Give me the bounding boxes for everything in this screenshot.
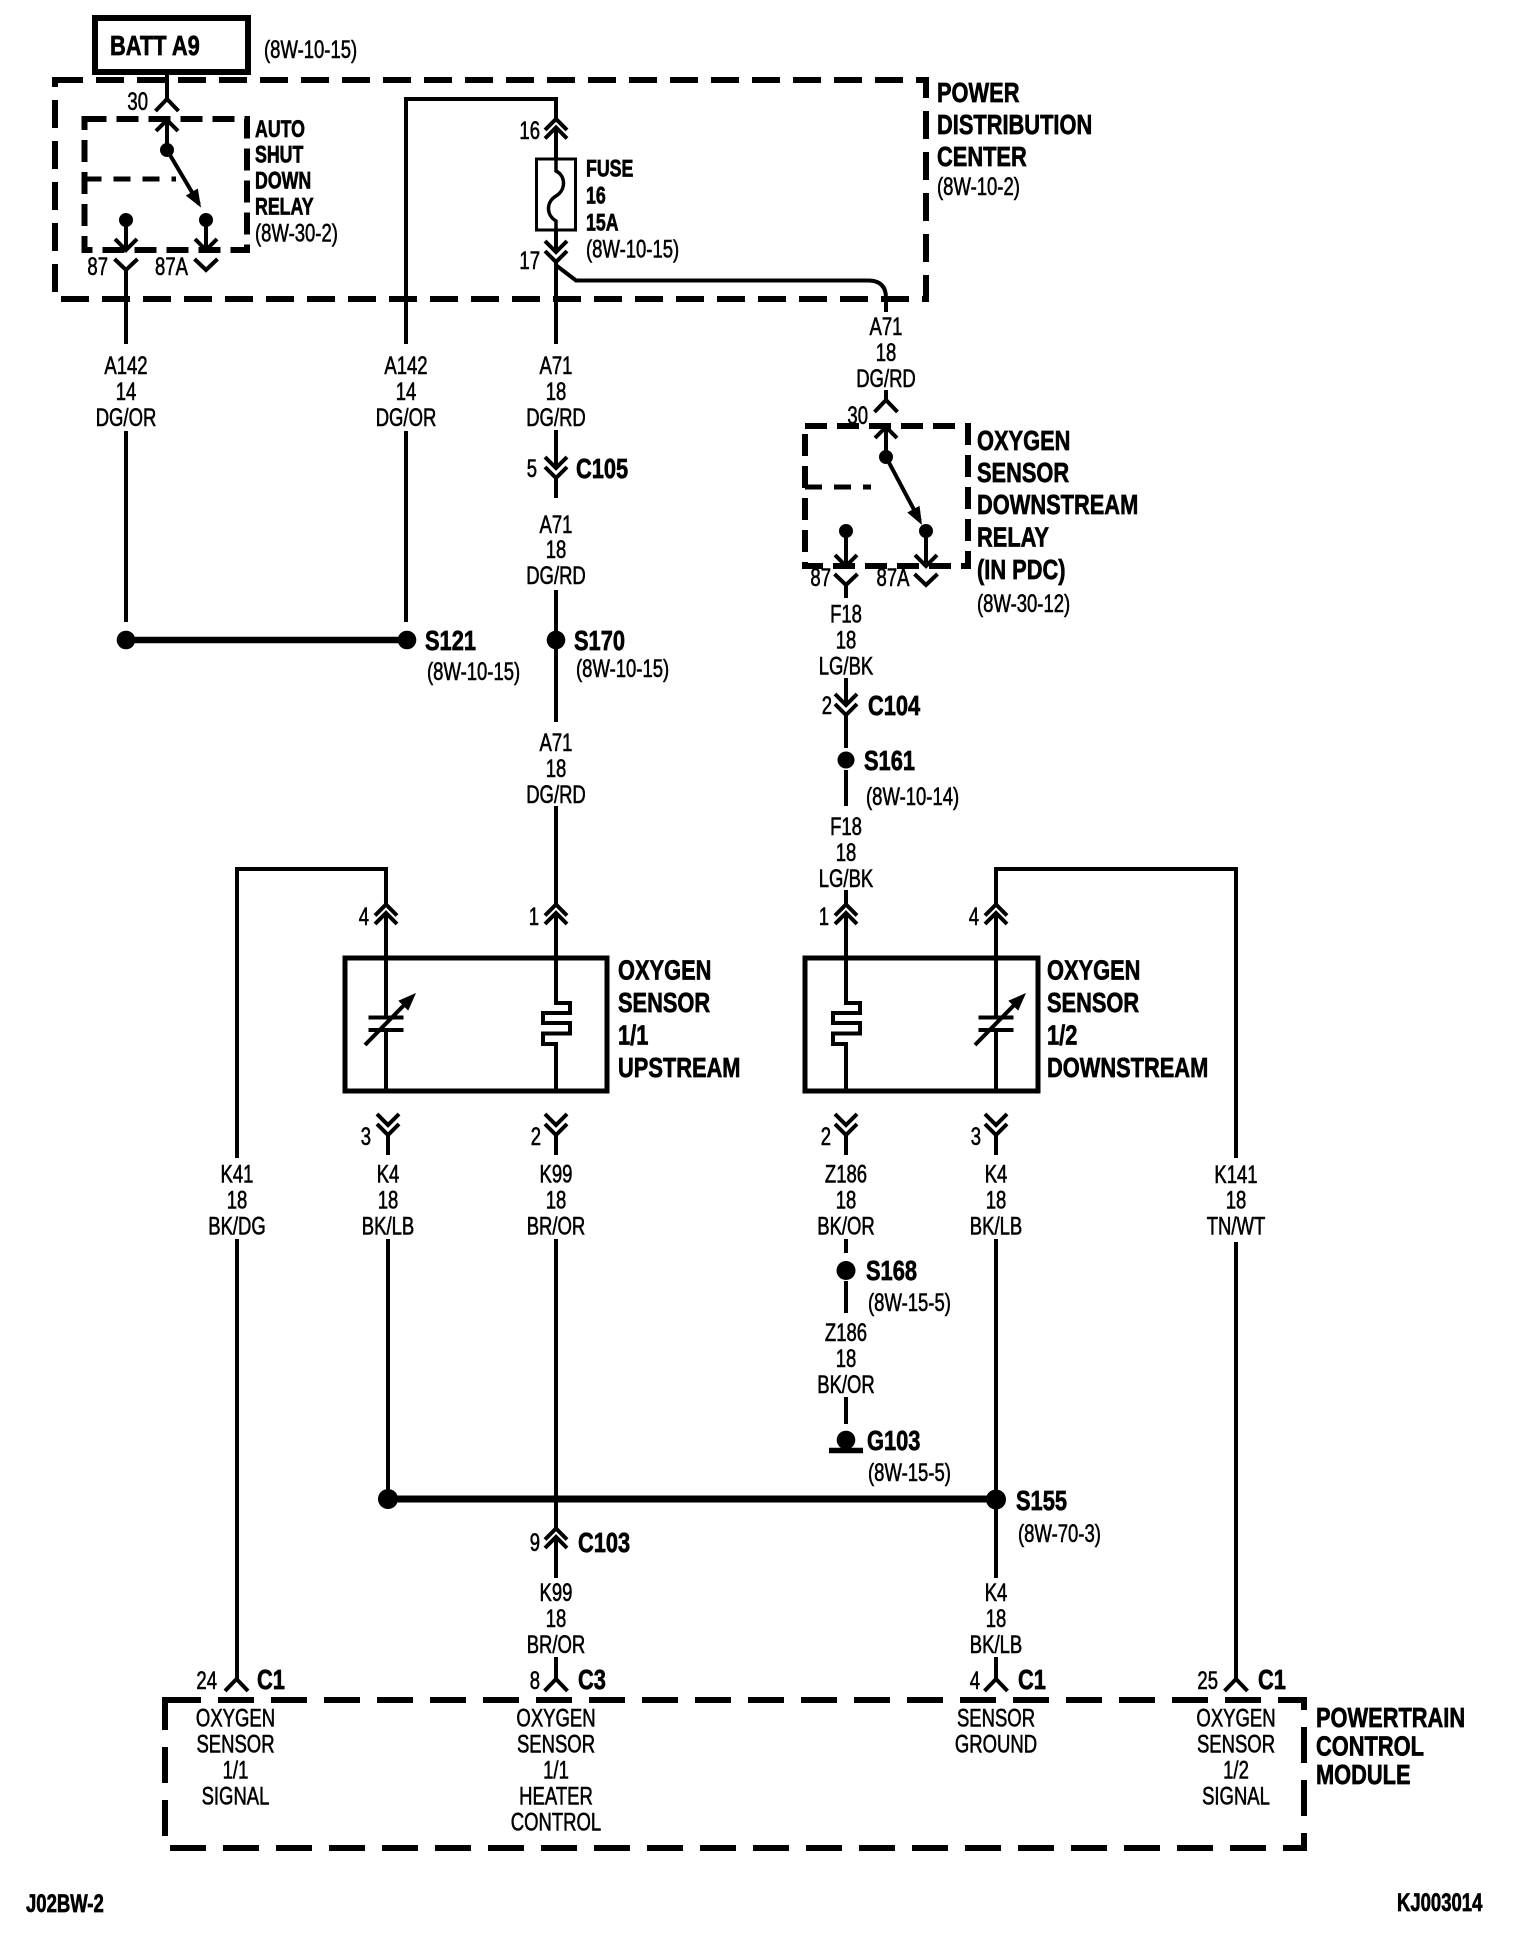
wire down to PCM pin 4 (994, 1657, 998, 1679)
svg-text:CENTER: CENTER (937, 141, 1027, 172)
wire label K4 18 BK/LB sensor 1/1 ground (362, 1160, 414, 1240)
PCM pin 8 female connector C3 (530, 1664, 606, 1695)
wire down to sensor 1/2 pin 1 (844, 890, 848, 904)
svg-text:OXYGEN: OXYGEN (516, 1704, 595, 1732)
svg-text:16: 16 (586, 183, 606, 209)
PCM pin 24 female connector C1 (196, 1664, 285, 1695)
wire column 2 down to splice S121 (404, 431, 408, 622)
svg-text:24: 24 (196, 1666, 217, 1694)
svg-text:C1: C1 (257, 1664, 285, 1695)
label OXYGEN SENSOR 1/1 HEATER CONTROL (511, 1704, 601, 1836)
svg-text:DOWNSTREAM: DOWNSTREAM (977, 489, 1138, 520)
label OXYGEN SENSOR 1/2 DOWNSTREAM (1047, 955, 1208, 1084)
svg-text:30: 30 (127, 87, 148, 115)
svg-text:BK/OR: BK/OR (817, 1212, 875, 1240)
svg-text:18: 18 (227, 1186, 248, 1214)
ground G103 (829, 1425, 951, 1486)
svg-text:BK/LB: BK/LB (970, 1212, 1022, 1240)
svg-text:OXYGEN: OXYGEN (1196, 1704, 1275, 1732)
wire label K4 18 BK/LB below S155 (970, 1578, 1022, 1658)
svg-text:C104: C104 (868, 690, 920, 721)
power distribution center dashed box (55, 80, 926, 299)
svg-text:BK/OR: BK/OR (817, 1370, 875, 1398)
ASD relay contact 87 terminal arrow (115, 213, 137, 250)
splice S168 (837, 1255, 951, 1316)
wire fuse to pin 17 connector (554, 230, 558, 252)
svg-text:FUSE: FUSE (586, 156, 633, 182)
svg-text:(8W-10-15): (8W-10-15) (427, 657, 520, 685)
sensor 1/1 pin 4 connector (359, 902, 397, 934)
svg-text:18: 18 (546, 535, 567, 563)
wire down to PCM pin 8 (554, 1657, 558, 1679)
wire pin 17 down through PDC to label (554, 282, 558, 344)
svg-text:K99: K99 (540, 1160, 573, 1188)
label OXYGEN SENSOR 1/2 SIGNAL (1196, 1704, 1275, 1810)
svg-text:BR/OR: BR/OR (527, 1630, 586, 1658)
svg-text:OXYGEN: OXYGEN (618, 955, 711, 986)
svg-text:4: 4 (359, 902, 369, 930)
wire label Z186 18 BK/OR (817, 1160, 875, 1240)
svg-text:S161: S161 (864, 745, 915, 776)
svg-text:A71: A71 (540, 728, 573, 756)
wire 1/2 signal column down to PCM pin 25 (1234, 1242, 1238, 1679)
svg-text:OXYGEN: OXYGEN (196, 1704, 275, 1732)
label OXYGEN SENSOR 1/1 UPSTREAM (618, 955, 740, 1084)
wire down to O2 relay pin 30 (884, 390, 888, 400)
svg-text:8: 8 (530, 1666, 540, 1694)
wire stub below S161 (844, 770, 848, 806)
sensor 1/2 pin 1 connector (819, 902, 857, 934)
connector C105 cavity 5 (527, 453, 629, 498)
svg-text:SIGNAL: SIGNAL (202, 1782, 270, 1810)
wire down to splice line S155 left end (386, 1239, 390, 1490)
svg-text:DISTRIBUTION: DISTRIBUTION (937, 109, 1092, 140)
svg-text:(8W-10-15): (8W-10-15) (586, 235, 679, 263)
ASD relay internal dashed line (85, 177, 177, 182)
svg-text:18: 18 (546, 377, 567, 405)
wire label K41 18 BK/DG (208, 1160, 266, 1240)
wire BATT A9 to ASD relay pin 30 (165, 72, 169, 99)
oxygen sensor 1/2 downstream box (805, 958, 1038, 1091)
svg-text:BK/LB: BK/LB (970, 1630, 1022, 1658)
svg-text:K4: K4 (377, 1160, 400, 1188)
wire stub below S168 (844, 1281, 848, 1313)
svg-text:BK/LB: BK/LB (362, 1212, 414, 1240)
svg-text:CONTROL: CONTROL (1316, 1731, 1424, 1762)
powertrain control module dashed box (165, 1700, 1304, 1848)
svg-text:SENSOR: SENSOR (1197, 1730, 1275, 1758)
svg-text:(8W-10-2): (8W-10-2) (937, 172, 1020, 200)
svg-text:(8W-70-3): (8W-70-3) (1018, 1519, 1101, 1547)
splice S121 (117, 625, 520, 685)
label POWERTRAIN CONTROL MODULE (1316, 1702, 1465, 1790)
wire C104 to splice S161 (844, 714, 848, 748)
svg-text:C1: C1 (1258, 1664, 1286, 1695)
svg-text:K141: K141 (1214, 1160, 1257, 1188)
ASD relay pin 87 female connector (87, 252, 137, 283)
svg-text:16: 16 (519, 116, 540, 144)
svg-text:BK/DG: BK/DG (208, 1212, 266, 1240)
label AUTO SHUT DOWN RELAY (255, 117, 338, 248)
svg-text:LG/BK: LG/BK (819, 864, 874, 892)
sensor 1/1 pin 1 connector (529, 902, 567, 934)
svg-text:F18: F18 (830, 600, 862, 628)
svg-text:DG/RD: DG/RD (526, 561, 586, 589)
wire label A71 18 DG/RD relay feed (856, 312, 916, 392)
label FUSE 16 15A (586, 156, 679, 263)
svg-text:25: 25 (1197, 1666, 1218, 1694)
svg-text:Z186: Z186 (825, 1318, 867, 1346)
svg-text:LG/BK: LG/BK (819, 652, 874, 680)
svg-text:AUTO: AUTO (255, 117, 305, 143)
wire pin 4 connector into sensor box (384, 934, 388, 958)
svg-text:A71: A71 (870, 312, 903, 340)
svg-text:K99: K99 (540, 1578, 573, 1606)
sensor 1/1 pin 3 connector (361, 1114, 399, 1155)
wire label A71 18 DG/RD below C105 (526, 477, 586, 590)
svg-text:C3: C3 (578, 1664, 606, 1695)
label POWER DISTRIBUTION CENTER (937, 77, 1092, 200)
svg-text:POWERTRAIN: POWERTRAIN (1316, 1702, 1465, 1733)
svg-text:SHUT: SHUT (255, 142, 303, 168)
ASD relay pin 87A female connector (155, 252, 217, 280)
sensor 1/2 pin 2 connector (821, 1114, 857, 1155)
svg-text:87A: 87A (155, 252, 188, 280)
svg-text:BR/OR: BR/OR (527, 1212, 586, 1240)
svg-text:(IN PDC): (IN PDC) (977, 554, 1066, 585)
label OXYGEN SENSOR DOWNSTREAM RELAY (IN PDC) (977, 425, 1138, 617)
svg-text:4: 4 (969, 902, 979, 930)
svg-text:SIGNAL: SIGNAL (1202, 1782, 1270, 1810)
sensor 1/2 pin 4 connector (969, 902, 1007, 934)
sensor 1/2 variable sense element (975, 958, 1026, 1091)
svg-text:4: 4 (970, 1666, 980, 1694)
svg-text:DG/RD: DG/RD (856, 364, 916, 392)
sensor 1/1 heater element (543, 958, 570, 1091)
wire stub to ground G103 (844, 1397, 848, 1424)
wire S155 down to label (994, 1509, 998, 1578)
svg-text:C103: C103 (578, 1527, 630, 1558)
svg-text:DG/OR: DG/OR (96, 403, 157, 431)
svg-text:SENSOR: SENSOR (957, 1704, 1035, 1732)
label OXYGEN SENSOR 1/1 SIGNAL (196, 1704, 275, 1810)
wire S170 down (554, 649, 558, 722)
footer diagram number J02BW-2 (26, 1889, 104, 1917)
svg-text:2: 2 (822, 691, 832, 719)
oxygen sensor downstream relay dashed box (805, 426, 968, 566)
svg-text:J02BW-2: J02BW-2 (26, 1889, 104, 1917)
svg-text:18: 18 (546, 1604, 567, 1632)
PCM pin 4 female connector C1 (970, 1664, 1046, 1695)
svg-text:A142: A142 (384, 351, 427, 379)
splice S170 (547, 625, 669, 682)
svg-text:(8W-10-15): (8W-10-15) (264, 35, 357, 63)
O2 relay internal dashed line (805, 485, 871, 490)
svg-text:C1: C1 (1018, 1664, 1046, 1695)
wire label K99 18 BR/OR below C103 (527, 1558, 586, 1659)
PCM pin 25 female connector C1 (1197, 1664, 1286, 1695)
svg-text:1/1: 1/1 (223, 1756, 249, 1784)
svg-text:(8W-10-14): (8W-10-14) (866, 782, 959, 810)
svg-text:18: 18 (836, 838, 857, 866)
wire label F18 18 LG/BK (819, 600, 874, 680)
sensor 1/2 heater element (833, 958, 860, 1091)
svg-text:87: 87 (810, 563, 831, 591)
svg-text:(8W-15-5): (8W-15-5) (868, 1458, 951, 1486)
wire label A71 18 DG/RD fuse column (526, 351, 586, 431)
svg-text:15A: 15A (586, 210, 619, 236)
svg-text:K4: K4 (985, 1578, 1008, 1606)
svg-text:18: 18 (836, 1344, 857, 1372)
svg-text:S168: S168 (866, 1255, 917, 1286)
svg-text:UPSTREAM: UPSTREAM (618, 1052, 740, 1083)
svg-text:1/2: 1/2 (1047, 1020, 1077, 1051)
svg-text:9: 9 (530, 1528, 540, 1556)
O2 relay contact 87A terminal arrow (915, 524, 937, 566)
svg-text:SENSOR: SENSOR (1047, 987, 1139, 1018)
svg-text:18: 18 (876, 338, 897, 366)
connector C103 cavity 9 (530, 1527, 631, 1558)
wire sensor 1/1 pin 4 up and left to signal column (237, 869, 386, 1158)
svg-text:DOWNSTREAM: DOWNSTREAM (1047, 1052, 1208, 1083)
svg-text:(8W-10-15): (8W-10-15) (576, 654, 669, 682)
svg-text:DG/RD: DG/RD (526, 780, 586, 808)
ASD relay contact 87A terminal arrow (195, 213, 217, 250)
branch wire pin 17 to oxygen sensor downstream relay feed (557, 266, 886, 312)
wire pin 4 connector into sensor 1/2 box (994, 934, 998, 958)
svg-text:18: 18 (546, 754, 567, 782)
svg-text:A71: A71 (540, 351, 573, 379)
svg-text:POWER: POWER (937, 77, 1019, 108)
svg-text:HEATER: HEATER (519, 1782, 593, 1810)
fuse 16 15A (537, 159, 576, 230)
svg-text:18: 18 (1226, 1186, 1247, 1214)
svg-text:3: 3 (971, 1122, 981, 1150)
svg-text:TN/WT: TN/WT (1207, 1212, 1266, 1240)
wire label K99 18 BR/OR (527, 1160, 586, 1240)
ASD relay pin 30 female connector (127, 87, 178, 115)
auto shut down relay dashed box (85, 119, 248, 250)
wire signal column down to PCM pin 24 (235, 1239, 239, 1679)
svg-text:S170: S170 (574, 625, 625, 656)
wire down to sensor 1/1 pin 1 (554, 806, 558, 904)
svg-text:1: 1 (819, 902, 829, 930)
svg-text:BATT A9: BATT A9 (110, 30, 200, 61)
wire label K4 18 BK/LB sensor ground column (970, 1160, 1022, 1240)
svg-text:DOWN: DOWN (255, 168, 311, 194)
svg-text:RELAY: RELAY (977, 522, 1049, 553)
ASD relay switch arm (167, 150, 201, 208)
svg-text:3: 3 (361, 1122, 371, 1150)
svg-text:S121: S121 (425, 625, 476, 656)
wire pin 1 connector into sensor box (554, 934, 558, 958)
wire down to splice S170 (554, 590, 558, 631)
O2 relay pin 30 female connector (847, 400, 897, 430)
footer drawing number KJ003014 (1397, 1888, 1483, 1916)
reference (8W-10-15) for BATT A9 (264, 35, 357, 63)
svg-text:K4: K4 (985, 1160, 1008, 1188)
svg-text:87: 87 (87, 252, 108, 280)
svg-text:Z186: Z186 (825, 1160, 867, 1188)
svg-text:17: 17 (519, 246, 540, 274)
wire 87 column down to splice S121 (124, 431, 128, 622)
svg-text:OXYGEN: OXYGEN (977, 425, 1070, 456)
wire label F18 18 LG/BK below S161 (819, 812, 874, 892)
svg-text:SENSOR: SENSOR (618, 987, 710, 1018)
wire label Z186 18 BK/OR below S168 (817, 1318, 875, 1398)
O2 relay contact 87 terminal arrow (835, 524, 857, 566)
svg-text:DG/RD: DG/RD (526, 403, 586, 431)
svg-text:2: 2 (531, 1122, 541, 1150)
O2 relay pin 87A female connector (877, 563, 938, 591)
svg-text:1/1: 1/1 (618, 1020, 648, 1051)
svg-text:(8W-15-5): (8W-15-5) (868, 1288, 951, 1316)
svg-text:OXYGEN: OXYGEN (1047, 955, 1140, 986)
svg-text:SENSOR: SENSOR (977, 457, 1069, 488)
svg-text:DG/OR: DG/OR (376, 403, 437, 431)
fuse cavity pin 16 connector (519, 116, 567, 148)
sensor 1/1 pin 2 connector (531, 1114, 567, 1155)
wire stub to splice S168 (844, 1239, 848, 1253)
svg-text:S155: S155 (1016, 1485, 1067, 1516)
O2 relay pin 30 terminal arrow (875, 427, 897, 464)
wire down to splice S155 (994, 1239, 998, 1490)
svg-text:G103: G103 (867, 1425, 920, 1456)
oxygen sensor 1/1 upstream box (345, 958, 607, 1091)
svg-text:C105: C105 (576, 453, 628, 484)
svg-text:RELAY: RELAY (255, 194, 314, 220)
splice S155 (378, 1485, 1101, 1547)
svg-text:A142: A142 (104, 351, 147, 379)
wire label A142 14 DG/OR column 2 (376, 351, 437, 431)
svg-text:SENSOR: SENSOR (517, 1730, 595, 1758)
sensor 1/2 pin 3 connector (971, 1114, 1007, 1155)
svg-text:(8W-30-12): (8W-30-12) (977, 589, 1070, 617)
svg-text:18: 18 (836, 1186, 857, 1214)
svg-text:18: 18 (986, 1186, 1007, 1214)
wire down to connector C104 (844, 678, 848, 705)
svg-text:18: 18 (836, 626, 857, 654)
wire down to connector C105 (554, 430, 558, 468)
svg-text:2: 2 (821, 1122, 831, 1150)
wire pin 1 connector into sensor 1/2 box (844, 934, 848, 958)
svg-text:KJ003014: KJ003014 (1397, 1888, 1483, 1916)
wire into fuse (554, 149, 558, 160)
svg-text:1/1: 1/1 (543, 1756, 569, 1784)
label SENSOR GROUND (955, 1704, 1037, 1758)
svg-text:18: 18 (378, 1186, 399, 1214)
svg-text:F18: F18 (830, 812, 862, 840)
svg-text:14: 14 (396, 377, 417, 405)
wire label A71 18 DG/RD above sensor (526, 728, 586, 808)
O2 relay pin 87 female connector (810, 563, 857, 598)
svg-text:MODULE: MODULE (1316, 1759, 1411, 1790)
svg-text:(8W-30-2): (8W-30-2) (255, 219, 338, 247)
svg-text:CONTROL: CONTROL (511, 1808, 601, 1836)
fuse cavity pin 17 connector (519, 241, 567, 282)
wire sensor 1/2 pin 4 up and right to signal column (996, 869, 1236, 1158)
svg-text:5: 5 (527, 454, 537, 482)
svg-text:SENSOR: SENSOR (196, 1730, 274, 1758)
connector C104 cavity 2 (822, 690, 921, 735)
svg-text:GROUND: GROUND (955, 1730, 1037, 1758)
svg-text:1/2: 1/2 (1223, 1756, 1249, 1784)
svg-text:K41: K41 (221, 1160, 254, 1188)
wire heater control column down to C103 (554, 1239, 558, 1528)
wire label A142 14 DG/OR left column (96, 351, 157, 431)
sensor 1/1 variable sense element (365, 958, 416, 1091)
wire ASD 87 down to label (124, 283, 128, 344)
svg-text:18: 18 (546, 1186, 567, 1214)
bus wire inside PDC from column 2 to fuse column (406, 99, 556, 344)
svg-text:14: 14 (116, 377, 137, 405)
splice S161 (838, 745, 960, 810)
O2 relay switch arm (886, 457, 922, 525)
svg-text:1: 1 (529, 902, 539, 930)
ASD relay pin 30 terminal arrow (156, 120, 178, 157)
wire label K141 18 TN/WT (1207, 1160, 1266, 1240)
svg-text:87A: 87A (877, 563, 910, 591)
battery feed box BATT A9 (95, 18, 248, 72)
svg-text:18: 18 (986, 1604, 1007, 1632)
